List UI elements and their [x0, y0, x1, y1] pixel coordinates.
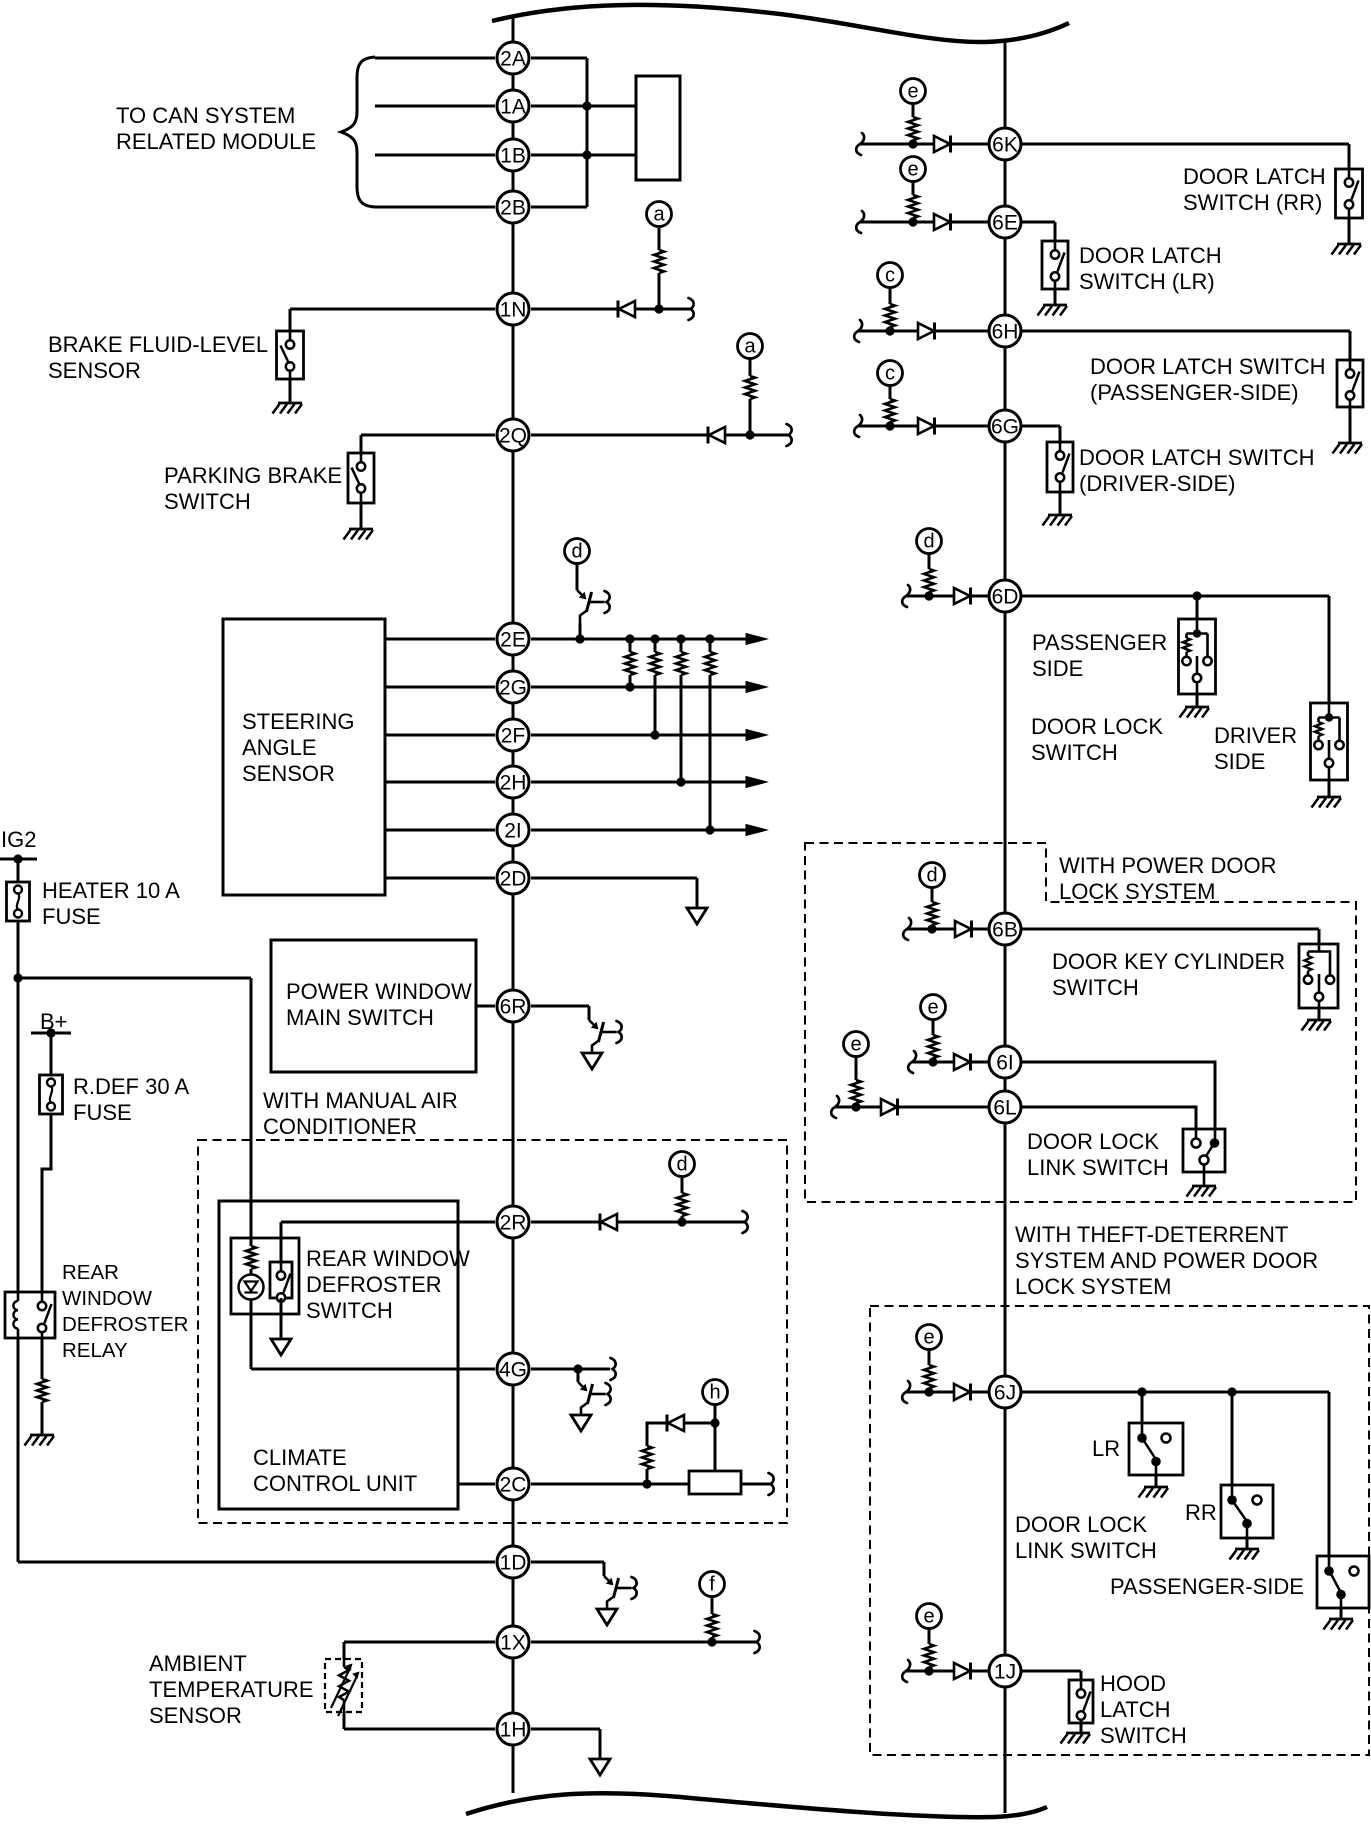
wire 6R drop — [588, 1006, 591, 1020]
wire 1N right to diode — [531, 308, 618, 311]
svg-text:SWITCH (RR): SWITCH (RR) — [1183, 190, 1322, 215]
svg-text:PASSENGER: PASSENGER — [1032, 630, 1167, 655]
diode feed 6E — [934, 214, 951, 231]
wire LR link to ground — [1155, 1475, 1158, 1487]
node 1X connector — [497, 1626, 529, 1658]
wire ladder top 1 — [629, 639, 632, 652]
break start 6K — [856, 133, 864, 155]
svg-text:TEMPERATURE: TEMPERATURE — [149, 1677, 314, 1702]
door lock link switch RR — [1221, 1485, 1273, 1538]
wire 1D right — [531, 1561, 604, 1564]
door key cylinder switch box — [1299, 944, 1338, 1008]
ground brake fluid-level sensor — [273, 403, 303, 414]
svg-text:CLIMATE: CLIMATE — [253, 1445, 347, 1470]
diode h branch — [667, 1415, 684, 1432]
break start 6D — [902, 585, 910, 607]
pigtail connector 6R ground arrow — [582, 1053, 602, 1069]
dashed enclosure WITH MANUAL AIR CONDITIONER — [198, 1140, 787, 1523]
svg-text:DRIVER: DRIVER — [1214, 723, 1297, 748]
svg-text:e: e — [923, 1606, 934, 1628]
svg-text:DOOR LATCH SWITCH: DOOR LATCH SWITCH — [1090, 354, 1325, 379]
svg-text:LINK SWITCH: LINK SWITCH — [1015, 1538, 1157, 1563]
wire 6K right — [1021, 143, 1349, 146]
node e splice point — [917, 1604, 942, 1629]
resistor feed 6I — [928, 1035, 938, 1058]
wire 2Q diode to break — [725, 434, 788, 437]
diode 1N — [618, 301, 635, 318]
svg-text:R.DEF 30 A: R.DEF 30 A — [73, 1074, 189, 1099]
wire 2A left — [375, 57, 495, 60]
wire 6H drop — [1349, 331, 1352, 360]
svg-text:SIDE: SIDE — [1214, 749, 1265, 774]
wire resistor d upper — [681, 1177, 684, 1194]
ground door latch passenger — [1333, 443, 1363, 454]
svg-text:6D: 6D — [992, 585, 1019, 608]
arrow 2I output — [746, 825, 767, 836]
wire 1D drop — [603, 1562, 606, 1576]
junction 2R resistor — [677, 1217, 686, 1226]
wire resistor to LED — [250, 1269, 253, 1275]
label REAR WINDOW DEFROSTER SWITCH — [306, 1246, 470, 1323]
svg-text:d: d — [571, 541, 582, 563]
resistor ladder 3 — [676, 652, 686, 675]
svg-text:2Q: 2Q — [499, 424, 527, 447]
node a splice point — [647, 202, 672, 227]
node 6I connector — [989, 1046, 1021, 1078]
svg-text:SENSOR: SENSOR — [149, 1703, 242, 1728]
junction 2C resistor — [642, 1479, 651, 1488]
wire 1B left — [375, 154, 495, 157]
wire steering to 2D — [385, 877, 495, 880]
junction 6D — [1192, 591, 1201, 600]
ground arrow 1H — [590, 1759, 610, 1775]
junction 1N resistor — [654, 304, 663, 313]
wire RR link to ground — [1246, 1538, 1249, 1549]
pigtail connector 1D — [604, 1576, 637, 1609]
junction ladder bottom 2 — [650, 730, 659, 739]
node d splice point — [920, 863, 945, 888]
diode feed 6K — [934, 136, 951, 153]
wire feed resistor upper 6K — [912, 104, 915, 118]
torn-edge arc bottom — [466, 1793, 1047, 1817]
ground link RR — [1230, 1549, 1260, 1560]
label AMBIENT TEMPERATURE SENSOR — [149, 1651, 314, 1728]
svg-text:AMBIENT: AMBIENT — [149, 1651, 247, 1676]
resistor d 2R — [677, 1193, 687, 1216]
junction ladder top 2 — [650, 634, 659, 643]
svg-text:2G: 2G — [499, 676, 527, 699]
ground door latch LR — [1038, 305, 1068, 316]
wire into defroster resistor — [250, 978, 253, 1246]
svg-text:h: h — [709, 1382, 720, 1404]
junction ladder top 3 — [676, 634, 685, 643]
wire 1J right — [1021, 1670, 1081, 1673]
wire feed resistor upper 6L — [855, 1057, 858, 1081]
fuse HEATER 10A — [7, 882, 30, 921]
label REAR WINDOW DEFROSTER RELAY — [62, 1261, 188, 1362]
svg-text:DEFROSTER: DEFROSTER — [62, 1313, 188, 1336]
label R.DEF 30 A FUSE — [73, 1074, 189, 1125]
wire 1J drop — [1080, 1671, 1083, 1688]
wire h resistor to diode — [647, 1423, 667, 1446]
junction ladder top 4 — [705, 634, 714, 643]
svg-text:SWITCH: SWITCH — [306, 1298, 393, 1323]
ground link passenger-side — [1324, 1619, 1354, 1630]
node 6K connector — [989, 128, 1021, 160]
wire steering to 2F — [385, 734, 495, 737]
diode feed 6B — [955, 921, 972, 938]
wire feed 1J — [906, 1670, 989, 1673]
wire feed 6K — [860, 143, 989, 146]
svg-text:SWITCH: SWITCH — [164, 489, 251, 514]
svg-text:2B: 2B — [500, 196, 526, 219]
svg-text:STEERING: STEERING — [242, 709, 354, 734]
diode 2R — [600, 1214, 617, 1231]
torn-edge arc top — [492, 5, 1069, 42]
junction 6J RR — [1227, 1387, 1236, 1396]
svg-text:WITH MANUAL AIR: WITH MANUAL AIR — [263, 1088, 458, 1113]
break end 2Q right — [787, 424, 792, 446]
svg-text:1J: 1J — [994, 1660, 1016, 1683]
wire feed resistor upper 6H — [889, 288, 892, 305]
svg-text:c: c — [885, 363, 895, 385]
svg-text:1B: 1B — [500, 144, 526, 167]
wire steering to 2I — [385, 829, 495, 832]
junction feed 1J — [924, 1666, 933, 1675]
climate control unit box — [219, 1201, 458, 1509]
node 2C connector — [497, 1468, 529, 1500]
wire 1H right — [531, 1728, 600, 1731]
wire 1X left — [344, 1641, 495, 1644]
svg-text:REAR WINDOW: REAR WINDOW — [306, 1246, 470, 1271]
svg-text:WITH THEFT-DETERRENT: WITH THEFT-DETERRENT — [1015, 1222, 1288, 1247]
wire 1N left — [290, 308, 495, 311]
svg-text:BRAKE FLUID-LEVEL: BRAKE FLUID-LEVEL — [48, 332, 268, 357]
wire pigtail 2E to wire — [579, 623, 582, 639]
ground relay — [25, 1435, 55, 1446]
label DOOR LATCH SWITCH (LR) — [1079, 243, 1222, 294]
wire resistor f upper — [711, 1597, 714, 1615]
junction feed 6I — [928, 1057, 937, 1066]
wire 6J RR drop — [1231, 1392, 1234, 1485]
svg-text:TO CAN SYSTEM: TO CAN SYSTEM — [116, 103, 295, 128]
diode feed 6L — [881, 1099, 898, 1116]
node 1D connector — [497, 1546, 529, 1578]
label IG2 — [1, 827, 36, 852]
wire 6J passenger drop — [1328, 1392, 1331, 1556]
node e splice point — [901, 79, 926, 104]
wire h resistor lower — [646, 1469, 649, 1484]
wire 2C right — [531, 1483, 689, 1486]
wire ladder bottom 4 — [709, 675, 712, 830]
svg-text:c: c — [885, 265, 895, 287]
svg-text:HOOD: HOOD — [1100, 1671, 1166, 1696]
svg-text:e: e — [923, 1327, 934, 1349]
node c splice point — [878, 361, 903, 386]
svg-text:2E: 2E — [500, 628, 526, 651]
wire 6J right — [1021, 1391, 1329, 1394]
resistor feed 6E — [908, 195, 918, 218]
wire feed 6J — [906, 1391, 989, 1394]
break end 4G right — [611, 1358, 616, 1380]
label BRAKE FLUID-LEVEL SENSOR — [48, 332, 268, 383]
wire power window to 6R — [476, 1005, 495, 1008]
junction 4G — [573, 1364, 582, 1373]
label POWER WINDOW MAIN SWITCH — [286, 979, 472, 1030]
wire 2D drop — [696, 878, 699, 908]
ground link LR — [1139, 1487, 1169, 1498]
node d splice point — [565, 539, 590, 564]
label DOOR LOCK SWITCH — [1031, 714, 1163, 765]
arrow 2E output — [746, 634, 767, 645]
wire fuse to junction — [17, 921, 20, 978]
wire RR latch to ground — [1348, 218, 1351, 244]
svg-text:DEFROSTER: DEFROSTER — [306, 1272, 442, 1297]
svg-text:6L: 6L — [993, 1096, 1016, 1119]
wire feed 6I — [912, 1061, 989, 1064]
junction IG2 — [13, 854, 22, 863]
svg-text:a: a — [744, 336, 756, 358]
wire ladder bottom 1 — [629, 675, 632, 687]
svg-text:a: a — [653, 204, 665, 226]
diode feed 6H — [918, 323, 935, 340]
wire steering to 2E — [385, 638, 495, 641]
pigtail connector 4G ground arrow — [571, 1415, 591, 1431]
node 2E connector — [497, 623, 529, 655]
door latch switch passenger-side — [1337, 360, 1363, 407]
junction 1X resistor — [707, 1637, 716, 1646]
node e splice point — [921, 995, 946, 1020]
junction heater branch — [13, 973, 22, 982]
label HEATER 10 A FUSE — [42, 878, 180, 929]
svg-text:PASSENGER-SIDE: PASSENGER-SIDE — [1110, 1574, 1304, 1599]
node 6J connector — [989, 1376, 1021, 1408]
wire 6E right — [1021, 221, 1055, 224]
wire feed resistor upper 6E — [912, 182, 915, 196]
wire hood latch to ground — [1080, 1723, 1083, 1733]
junction B+ — [46, 1028, 55, 1037]
svg-text:DOOR KEY CYLINDER: DOOR KEY CYLINDER — [1052, 949, 1285, 974]
ground parking brake switch — [344, 529, 374, 540]
ground door latch driver — [1043, 515, 1073, 526]
terminal B+ bar — [31, 1032, 71, 1035]
wire 2E right — [531, 638, 746, 641]
wire resistor a2 lower — [749, 399, 752, 435]
diode feed 6D — [954, 588, 971, 605]
svg-text:LATCH: LATCH — [1100, 1697, 1171, 1722]
component block 2C — [689, 1471, 741, 1494]
resistor h branch — [642, 1446, 652, 1469]
junction feed 6D — [924, 591, 933, 600]
node h splice point — [703, 1380, 728, 1405]
wire branch to defroster switch — [18, 977, 251, 980]
brake fluid-level sensor switch — [277, 331, 304, 379]
svg-text:2A: 2A — [500, 47, 526, 70]
wire 1B to module — [531, 154, 636, 157]
wire driver lock to ground — [1328, 780, 1331, 797]
label CLIMATE CONTROL UNIT — [253, 1445, 417, 1496]
resistor feed 6B — [927, 902, 937, 925]
node 1B connector — [497, 139, 529, 171]
wire feed 6E — [860, 221, 989, 224]
label STEERING ANGLE SENSOR — [242, 709, 354, 786]
diode feed 6I — [954, 1054, 971, 1071]
svg-text:1N: 1N — [500, 298, 527, 321]
wire passenger latch to ground — [1349, 407, 1352, 443]
resistor feed 1J — [924, 1644, 934, 1667]
wire h diode to junction — [684, 1422, 715, 1425]
label DOOR LATCH SWITCH (DRIVER-SIDE) — [1079, 445, 1314, 496]
node 2G connector — [497, 671, 529, 703]
ground hood latch — [1061, 1733, 1091, 1744]
wire IG2 down to relay — [17, 978, 20, 1292]
node 2F connector — [497, 719, 529, 751]
node 6L connector — [989, 1091, 1021, 1123]
wire driver latch to ground — [1059, 492, 1062, 515]
door lock link switch box — [1183, 1129, 1225, 1186]
wire 6E drop — [1054, 222, 1057, 241]
wire 2A right — [531, 57, 587, 60]
svg-text:SWITCH: SWITCH — [1100, 1723, 1187, 1748]
wire 2H right — [531, 781, 746, 784]
wire relay contact down — [41, 1338, 44, 1379]
node e splice point — [917, 1325, 942, 1350]
svg-text:RELATED MODULE: RELATED MODULE — [116, 129, 316, 154]
node 6E connector — [989, 206, 1021, 238]
svg-text:RR: RR — [1185, 1500, 1217, 1525]
wire IG2 down to fuse — [17, 859, 20, 882]
node 2A connector — [497, 42, 529, 74]
wire feed 6L — [835, 1106, 989, 1109]
break start 6I — [908, 1051, 916, 1073]
wire 6G right — [1021, 425, 1060, 428]
svg-text:d: d — [676, 1154, 687, 1176]
wire steering to 2H — [385, 781, 495, 784]
svg-text:e: e — [850, 1034, 861, 1056]
svg-text:4G: 4G — [499, 1358, 527, 1381]
pigtail connector 6R — [589, 1020, 622, 1053]
label DOOR LOCK LINK SWITCH 2 — [1015, 1512, 1157, 1563]
wire feed resistor upper 6D — [928, 554, 931, 570]
svg-text:LOCK SYSTEM: LOCK SYSTEM — [1059, 879, 1215, 904]
svg-text:HEATER 10 A: HEATER 10 A — [42, 878, 180, 903]
label DOOR LOCK LINK SWITCH — [1027, 1129, 1169, 1180]
label PARKING BRAKE SWITCH — [164, 463, 342, 514]
junction 1B link — [582, 150, 591, 159]
wire h junction up — [714, 1405, 717, 1424]
wire 6L right — [1021, 1107, 1196, 1140]
node 2D connector — [497, 862, 529, 894]
svg-text:DOOR LATCH: DOOR LATCH — [1183, 164, 1326, 189]
svg-text:DOOR LOCK: DOOR LOCK — [1031, 714, 1163, 739]
label TO CAN SYSTEM RELATED MODULE — [116, 103, 316, 154]
wire 2R diode to break — [617, 1221, 744, 1224]
junction ladder bottom 1 — [625, 682, 634, 691]
node 2I connector — [497, 814, 529, 846]
junction 6J LR — [1137, 1387, 1146, 1396]
wire 2F right — [531, 734, 746, 737]
node 6H connector — [989, 315, 1021, 347]
resistor feed 6J — [924, 1365, 934, 1388]
svg-text:DOOR LOCK: DOOR LOCK — [1027, 1129, 1159, 1154]
svg-text:MAIN SWITCH: MAIN SWITCH — [286, 1005, 434, 1030]
wire passenger link to ground — [1340, 1608, 1343, 1619]
svg-text:6H: 6H — [992, 320, 1019, 343]
svg-text:DOOR LOCK: DOOR LOCK — [1015, 1512, 1147, 1537]
node d splice point — [670, 1152, 695, 1177]
wire 6R right — [531, 1005, 589, 1008]
wire 2C from climate box — [458, 1483, 495, 1486]
node d splice point — [917, 529, 942, 554]
svg-text:LOCK SYSTEM: LOCK SYSTEM — [1015, 1274, 1171, 1299]
wire 1X right — [531, 1641, 756, 1644]
svg-text:(DRIVER-SIDE): (DRIVER-SIDE) — [1079, 471, 1235, 496]
svg-text:IG2: IG2 — [1, 827, 36, 852]
door lock switch driver side — [1311, 703, 1348, 780]
junction feed 6K — [908, 139, 917, 148]
ground arrow 2D — [687, 908, 707, 924]
ground door lock driver — [1312, 797, 1342, 808]
ground arrow defroster switch — [271, 1339, 291, 1355]
diode feed 1J — [954, 1663, 971, 1680]
door latch switch RR — [1336, 169, 1363, 218]
wire resistor a1 upper — [658, 227, 661, 251]
node e splice point — [844, 1032, 869, 1057]
break end 2C right — [769, 1473, 774, 1495]
svg-text:1H: 1H — [500, 1718, 527, 1741]
svg-text:PARKING BRAKE: PARKING BRAKE — [164, 463, 342, 488]
svg-text:WINDOW: WINDOW — [62, 1287, 153, 1310]
steering angle sensor box — [223, 619, 385, 895]
pigtail connector 2E — [577, 590, 610, 623]
wire block to break — [741, 1483, 770, 1486]
resistor f 1X — [707, 1614, 717, 1637]
wire 2R left — [281, 1221, 495, 1224]
junction ladder top 1 — [625, 634, 634, 643]
junction feed 6J — [924, 1387, 933, 1396]
resistor ladder 4 — [705, 652, 715, 675]
break start 6L — [831, 1096, 839, 1118]
wire passenger lock to ground — [1196, 694, 1199, 707]
ground door lock passenger — [1180, 707, 1210, 718]
svg-text:DOOR LATCH SWITCH: DOOR LATCH SWITCH — [1079, 445, 1314, 470]
wire steering to 2G — [385, 686, 495, 689]
wire ladder bottom 2 — [654, 675, 657, 735]
wire feed resistor upper 6J — [928, 1350, 931, 1366]
hood latch switch — [1069, 1680, 1093, 1723]
break start 6E — [856, 211, 864, 233]
svg-text:LR: LR — [1092, 1436, 1120, 1461]
junction 2Q resistor — [745, 430, 754, 439]
wire 6D driver drop — [1328, 596, 1331, 703]
node 1J connector — [989, 1655, 1021, 1687]
break start 6H — [854, 320, 862, 342]
wire ladder bottom 3 — [680, 675, 683, 782]
break start 6B — [903, 918, 911, 940]
svg-text:6E: 6E — [992, 211, 1018, 234]
break start 6J — [902, 1381, 910, 1403]
door latch switch LR — [1042, 241, 1068, 289]
wire resistor a1 lower — [658, 273, 661, 309]
node 6D connector — [989, 580, 1021, 612]
wire LED down to 4G wire — [250, 1300, 253, 1370]
break end 2R right — [743, 1211, 748, 1233]
svg-text:CONDITIONER: CONDITIONER — [263, 1114, 417, 1139]
junction feed 6G — [885, 421, 894, 430]
svg-text:ANGLE: ANGLE — [242, 735, 317, 760]
break end 1X right — [755, 1631, 760, 1653]
wire 1A left — [375, 105, 495, 108]
